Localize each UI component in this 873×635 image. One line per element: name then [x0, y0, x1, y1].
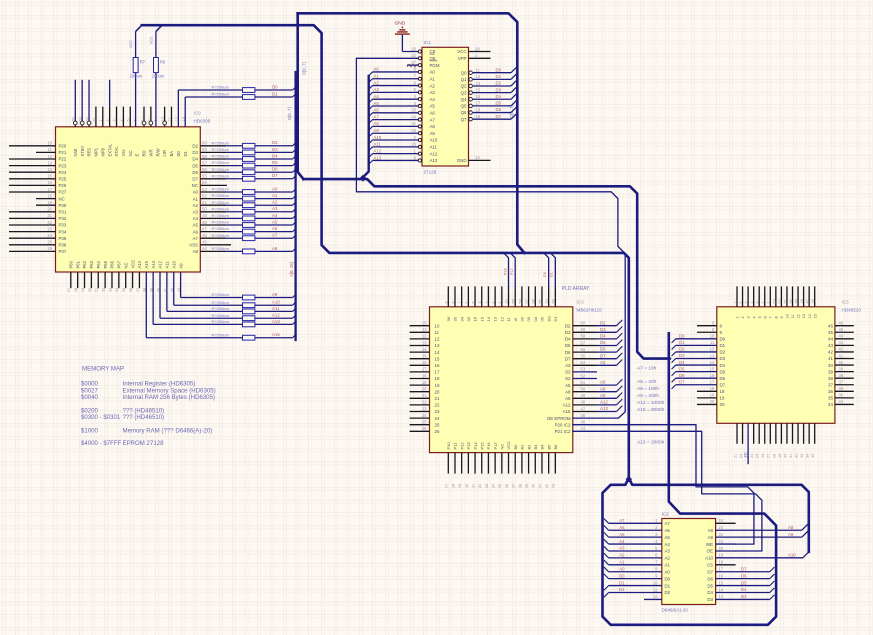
svg-text:D4: D4 [192, 157, 198, 162]
svg-text:24: 24 [719, 518, 724, 523]
wire OE net from pin [356, 57, 418, 59]
svg-text:3: 3 [747, 316, 751, 318]
svg-text:4: 4 [750, 301, 754, 303]
wire D7 hook to bus [770, 567, 775, 572]
svg-text:P14: P14 [473, 442, 478, 450]
svg-text:35: 35 [828, 396, 833, 401]
svg-text:HD6305: HD6305 [194, 119, 211, 124]
svg-text:25: 25 [756, 454, 760, 458]
IC5 bottom pins [733, 423, 815, 464]
svg-text:R9: R9 [160, 60, 166, 65]
svg-text:P21: P21 [59, 150, 67, 155]
junction address trunk [360, 175, 367, 182]
svg-text:A13: A13 [430, 158, 438, 163]
svg-text:25: 25 [422, 420, 427, 425]
svg-text:20: 20 [435, 389, 440, 394]
resistor R 200um net A12 [243, 316, 255, 321]
svg-text:A9: A9 [565, 396, 571, 401]
svg-text:21: 21 [411, 121, 416, 126]
svg-text:7: 7 [140, 119, 144, 121]
svg-text:60: 60 [202, 141, 207, 146]
svg-text:11: 11 [791, 315, 795, 319]
svg-text:A8: A8 [600, 386, 606, 391]
wire D0 hook to bus [293, 86, 297, 90]
svg-text:A7 = 10h: A7 = 10h [637, 366, 657, 372]
svg-text:EXTAL: EXTAL [107, 143, 112, 157]
wire D6 hook to bus [770, 574, 775, 579]
wire D2 hook to bus [617, 320, 623, 326]
wire A12 hook to bus [617, 399, 623, 405]
node VPP squiggle on PGM pin [407, 64, 419, 66]
wire D4 hook to bus [770, 588, 775, 593]
svg-text:A13: A13 [151, 260, 156, 268]
svg-text:03: 03 [526, 316, 531, 321]
wire D5 hook to bus [672, 372, 676, 376]
svg-text:A3: A3 [374, 87, 380, 92]
svg-text:MEMORY MAP: MEMORY MAP [82, 366, 124, 373]
wire D5 hook to bus [617, 340, 623, 346]
svg-text:Q7: Q7 [461, 117, 467, 122]
svg-text:D4: D4 [741, 587, 747, 592]
resistor R 200um net A10 [243, 303, 255, 308]
svg-text:35: 35 [498, 484, 502, 488]
svg-text:A0: A0 [665, 569, 671, 574]
svg-text:$4000 - $7FFF: $4000 - $7FFF [81, 440, 122, 447]
svg-text:A10: A10 [374, 135, 382, 140]
svg-text:28: 28 [451, 484, 455, 488]
svg-text:8: 8 [451, 301, 455, 303]
wire A11 hook to bus [369, 147, 373, 151]
svg-text:MP0: MP0 [100, 147, 105, 156]
wire A9 to bus [802, 530, 809, 537]
wire A8 to bus [802, 523, 809, 530]
svg-text:A3: A3 [600, 360, 606, 365]
svg-text:A6: A6 [272, 226, 278, 231]
svg-text:47: 47 [806, 299, 810, 303]
wire D5 hook to bus [293, 162, 297, 166]
svg-text:Q2: Q2 [461, 84, 467, 89]
svg-text:EPROM 27128: EPROM 27128 [123, 440, 165, 447]
svg-text:D7: D7 [707, 569, 713, 574]
svg-text:3: 3 [113, 119, 117, 121]
svg-text:A10: A10 [705, 556, 713, 561]
resistor R 200um net D1 [243, 95, 255, 100]
wire A2 hook to bus [293, 202, 297, 206]
svg-text:VCC: VCC [130, 260, 135, 269]
svg-text:A11: A11 [165, 261, 170, 269]
svg-text:D[0..7]: D[0..7] [302, 62, 307, 75]
svg-text:D3: D3 [679, 353, 685, 358]
svg-text:A12: A12 [600, 400, 608, 405]
svg-text:R?200um: R?200um [212, 187, 230, 192]
wire A7 hook to bus [293, 235, 297, 239]
svg-text:A7: A7 [665, 521, 671, 526]
wire A5 hook to bus [293, 221, 297, 225]
svg-text:D5: D5 [679, 366, 685, 371]
svg-text:51: 51 [202, 200, 207, 205]
svg-text:52: 52 [778, 299, 782, 303]
svg-text:60: 60 [581, 321, 586, 326]
svg-text:R?200um: R?200um [212, 220, 230, 225]
svg-text:63: 63 [79, 117, 83, 121]
svg-text:39: 39 [150, 288, 154, 292]
resistor R 200um net A11 [243, 309, 255, 314]
svg-text:21: 21 [733, 454, 737, 458]
svg-text:7: 7 [458, 301, 462, 303]
svg-text:57: 57 [202, 160, 207, 165]
svg-text:A8 = 100h: A8 = 100h [637, 386, 659, 392]
svg-text:3: 3 [485, 301, 489, 303]
wire A3 hook to bus [617, 360, 623, 366]
svg-text:NC: NC [192, 183, 198, 188]
resistor R 200um net A8 [243, 249, 255, 254]
wire A0 hook to bus [293, 188, 297, 192]
svg-text:34: 34 [828, 402, 833, 407]
svg-text:11: 11 [653, 587, 658, 592]
svg-text:39: 39 [839, 366, 844, 371]
svg-text:CE: CE [430, 49, 436, 54]
svg-text:20: 20 [720, 402, 725, 407]
svg-text:23: 23 [719, 525, 724, 530]
svg-text:58: 58 [518, 299, 522, 303]
svg-text:17: 17 [435, 370, 440, 375]
svg-text:P64: P64 [96, 260, 101, 268]
svg-text:B0: B0 [513, 444, 518, 450]
svg-text:52: 52 [202, 193, 207, 198]
svg-text:12: 12 [797, 314, 801, 318]
svg-text:R?200um: R?200um [212, 306, 230, 311]
svg-text:A2: A2 [430, 83, 436, 88]
svg-text:VCC: VCC [129, 40, 133, 48]
svg-text:42: 42 [828, 350, 833, 355]
svg-text:13: 13 [710, 353, 715, 358]
svg-text:29: 29 [458, 484, 462, 488]
wire A4 hook to bus [604, 539, 609, 544]
svg-text:D1: D1 [665, 583, 671, 588]
wire A1 hook to bus [604, 560, 609, 565]
wire A8 hook to bus [293, 248, 297, 252]
IC9 top pin numbers [72, 117, 186, 121]
svg-text:18: 18 [422, 373, 427, 378]
wire inner top loop from pullups [142, 25, 629, 478]
svg-text:D7: D7 [496, 114, 502, 119]
svg-text:R?200um: R?200um [212, 213, 230, 218]
svg-text:11: 11 [48, 147, 53, 152]
svg-text:A7: A7 [374, 114, 380, 119]
IC9 left pins P20-P37 with pin numbers 10-26 [9, 141, 67, 255]
svg-text:8: 8 [147, 119, 151, 121]
svg-text:14: 14 [435, 350, 440, 355]
svg-text:28: 28 [74, 288, 78, 292]
svg-text:37: 37 [839, 380, 844, 385]
svg-text:13: 13 [719, 594, 724, 599]
svg-text:A15: A15 [144, 260, 149, 268]
svg-text:OE: OE [707, 549, 713, 554]
svg-text:D2: D2 [600, 320, 606, 325]
svg-text:A12: A12 [563, 403, 571, 408]
svg-text:A9: A9 [178, 263, 183, 269]
svg-text:A4: A4 [374, 94, 380, 99]
svg-text:MP1: MP1 [94, 147, 99, 156]
svg-text:59: 59 [202, 147, 207, 152]
wire A5 hook to bus [369, 106, 373, 110]
svg-text:$0040: $0040 [81, 394, 99, 401]
svg-text:A3: A3 [272, 206, 278, 211]
svg-text:Vss: Vss [121, 150, 126, 157]
resistor R7 200um [129, 25, 146, 127]
wire A13 hook to bus [293, 321, 297, 325]
svg-text:$1000: $1000 [81, 428, 99, 435]
svg-text:39: 39 [828, 369, 833, 374]
svg-text:17: 17 [719, 567, 724, 572]
svg-text:D5: D5 [600, 340, 606, 345]
svg-text:3: 3 [756, 301, 760, 303]
svg-text:37: 37 [512, 484, 516, 488]
svg-text:P23: P23 [59, 163, 67, 168]
svg-text:P33: P33 [59, 223, 67, 228]
svg-text:A2: A2 [272, 200, 278, 205]
svg-text:NMI: NMI [73, 149, 78, 157]
svg-text:15: 15 [710, 366, 715, 371]
wire A3 hook to bus [604, 546, 609, 551]
svg-text:A1: A1 [619, 560, 625, 565]
IC3 bottom pins [445, 441, 558, 488]
svg-text:2: 2 [106, 119, 110, 121]
wire A12 hook to bus [293, 315, 297, 319]
svg-text:A6: A6 [665, 528, 671, 533]
svg-text:22: 22 [411, 53, 416, 58]
wire D0 hook to bus [672, 339, 676, 343]
svg-text:D1: D1 [550, 272, 554, 277]
svg-text:R?200um: R?200um [212, 85, 230, 90]
wire A9 hook to bus [293, 294, 297, 298]
svg-text:D4: D4 [707, 590, 713, 595]
svg-text:R?200um: R?200um [212, 173, 230, 178]
svg-text:D5: D5 [720, 369, 726, 374]
IC IC9 HD6305 body [56, 127, 201, 272]
svg-text:A1: A1 [430, 76, 436, 81]
svg-text:50: 50 [789, 299, 793, 303]
svg-text:29: 29 [778, 454, 782, 458]
svg-text:36: 36 [828, 389, 833, 394]
svg-text:02: 02 [519, 316, 524, 321]
wire A8 hook to bus [617, 386, 623, 392]
svg-text:57: 57 [581, 340, 586, 345]
svg-text:A4: A4 [430, 97, 436, 102]
wire A1 hook to bus [369, 79, 373, 83]
svg-text:11: 11 [476, 68, 481, 73]
svg-text:A13: A13 [600, 406, 608, 411]
wire outer left vertical to trunk [298, 13, 304, 179]
svg-text:IC1: IC1 [424, 40, 432, 45]
svg-text:11: 11 [435, 330, 440, 335]
svg-text:20: 20 [411, 46, 416, 51]
svg-text:D1: D1 [720, 343, 726, 348]
wire D4 to bus [511, 93, 517, 99]
wire A0 hook to bus [369, 72, 373, 76]
svg-text:37: 37 [136, 288, 140, 292]
svg-text:38: 38 [828, 376, 833, 381]
svg-text:41: 41 [839, 353, 844, 358]
svg-text:RES: RES [87, 148, 92, 157]
svg-text:11: 11 [422, 327, 427, 332]
svg-text:P65: P65 [103, 260, 108, 268]
svg-text:A0: A0 [430, 70, 436, 75]
svg-text:OE EPROM: OE EPROM [547, 416, 571, 421]
IC5 top pins [733, 286, 817, 318]
svg-text:39: 39 [525, 484, 529, 488]
wire address trunk continues to middle bus [365, 179, 669, 359]
svg-text:1: 1 [498, 301, 502, 303]
svg-text:R?200um: R?200um [212, 147, 230, 152]
svg-text:R?200um: R?200um [212, 233, 230, 238]
svg-text:A5: A5 [619, 532, 625, 537]
ground GND symbol [395, 21, 410, 52]
svg-text:XTAL: XTAL [114, 146, 119, 157]
svg-text:P17: P17 [510, 268, 514, 275]
svg-text:A2: A2 [374, 80, 380, 85]
wire D3 hook to bus [770, 595, 775, 600]
svg-text:R?200um: R?200um [212, 319, 230, 324]
svg-text:A8: A8 [193, 249, 199, 254]
wire OE EPROM net [356, 58, 625, 418]
svg-text:E: E [135, 154, 140, 157]
wire address trunk [303, 178, 361, 181]
resistor R 200um net D3 [243, 150, 255, 155]
svg-text:A0: A0 [272, 186, 278, 191]
svg-text:56: 56 [581, 347, 586, 352]
svg-text:D2: D2 [496, 81, 502, 86]
svg-text:A9: A9 [788, 532, 794, 537]
svg-text:19: 19 [719, 553, 724, 558]
svg-text:43: 43 [552, 484, 556, 488]
svg-text:24: 24 [750, 454, 754, 458]
wire D3 to bus [511, 86, 517, 92]
svg-text:21: 21 [435, 396, 440, 401]
svg-text:D6: D6 [600, 347, 606, 352]
svg-text:D1: D1 [619, 580, 625, 585]
svg-text:A12 = 1000h: A12 = 1000h [637, 400, 665, 406]
wire D2 hook to bus [672, 352, 676, 356]
series resistors for D0 D1 nets [178, 84, 296, 99]
wire A10 hook to bus [369, 140, 373, 144]
svg-text:15: 15 [719, 580, 724, 585]
wire A11 hook to bus [293, 308, 297, 312]
svg-text:R?200um: R?200um [212, 160, 230, 165]
wire IC3 top pin to trunk [510, 253, 515, 287]
svg-text:D6: D6 [192, 170, 198, 175]
svg-text:59: 59 [581, 327, 586, 332]
wire D3 hook to bus [672, 359, 676, 363]
wire D6 hook to bus [293, 169, 297, 173]
wire A3 hook to bus [369, 92, 373, 96]
svg-text:A6: A6 [430, 110, 436, 115]
svg-text:32: 32 [478, 484, 482, 488]
svg-text:25: 25 [435, 422, 440, 427]
svg-text:12: 12 [476, 74, 481, 79]
svg-text:P16: P16 [486, 442, 491, 450]
svg-text:18: 18 [710, 386, 715, 391]
wire D6 hook to bus [672, 378, 676, 382]
svg-text:53: 53 [581, 367, 586, 372]
svg-text:D2: D2 [565, 323, 571, 328]
wire A9 hook to bus [369, 133, 373, 137]
svg-text:41: 41 [828, 356, 833, 361]
svg-text:B4: B4 [540, 444, 545, 450]
svg-text:D3: D3 [720, 356, 726, 361]
svg-text:A11: A11 [374, 142, 382, 147]
svg-text:48: 48 [581, 400, 586, 405]
svg-text:26: 26 [761, 454, 765, 458]
svg-text:P24: P24 [59, 170, 67, 175]
svg-text:17: 17 [710, 380, 715, 385]
svg-text:D1: D1 [272, 91, 278, 96]
svg-text:5: 5 [758, 316, 762, 318]
svg-text:24: 24 [435, 416, 440, 421]
svg-text:A7: A7 [430, 117, 436, 122]
svg-text:A5: A5 [430, 104, 436, 109]
svg-text:55: 55 [202, 174, 207, 179]
svg-text:19: 19 [422, 380, 427, 385]
svg-text:19: 19 [720, 396, 725, 401]
svg-text:26: 26 [47, 246, 52, 251]
svg-text:D5: D5 [496, 101, 502, 106]
svg-text:A12: A12 [158, 260, 163, 268]
svg-text:OE: OE [430, 56, 436, 61]
wire A15 hook to bus [293, 334, 297, 338]
svg-text:P30: P30 [59, 203, 67, 208]
wire A10 horizontal [716, 557, 803, 559]
wire D1 hook to bus [293, 93, 297, 97]
svg-text:A9: A9 [430, 131, 436, 136]
wire D7 to bus [511, 113, 517, 119]
svg-text:27: 27 [767, 454, 771, 458]
svg-text:D5: D5 [565, 343, 571, 348]
svg-text:17: 17 [422, 367, 427, 372]
svg-text:A0: A0 [374, 67, 380, 72]
svg-text:A2: A2 [665, 556, 671, 561]
IC1 left pins CE OE PGM A0-A13 [411, 46, 440, 163]
svg-text:23: 23 [47, 226, 52, 231]
wire A2 hook to bus [369, 86, 373, 90]
svg-text:62: 62 [85, 117, 89, 121]
svg-text:45: 45 [828, 330, 833, 335]
svg-text:A11: A11 [430, 145, 438, 150]
svg-text:13: 13 [802, 314, 806, 318]
svg-text:43: 43 [839, 340, 844, 345]
svg-text:20: 20 [710, 399, 715, 404]
svg-text:A0: A0 [193, 190, 199, 195]
wire A4 hook to bus [369, 99, 373, 103]
svg-text:P12: P12 [459, 442, 464, 450]
svg-text:38: 38 [839, 373, 844, 378]
svg-text:36: 36 [505, 484, 509, 488]
svg-text:15: 15 [47, 174, 52, 179]
svg-text:4: 4 [120, 119, 124, 121]
svg-text:34: 34 [492, 484, 496, 488]
svg-text:56: 56 [202, 167, 207, 172]
IC IC1 27128 EPROM body [422, 47, 469, 166]
svg-text:33: 33 [466, 316, 471, 321]
svg-text:29: 29 [81, 288, 85, 292]
svg-text:56: 56 [532, 299, 536, 303]
svg-text:A5: A5 [665, 535, 671, 540]
svg-text:A13: A13 [272, 319, 280, 324]
svg-text:D7: D7 [679, 379, 685, 384]
svg-text:$0300 - $0301: $0300 - $0301 [81, 414, 121, 421]
svg-text:24: 24 [411, 114, 416, 119]
svg-text:VCC: VCC [149, 36, 153, 44]
